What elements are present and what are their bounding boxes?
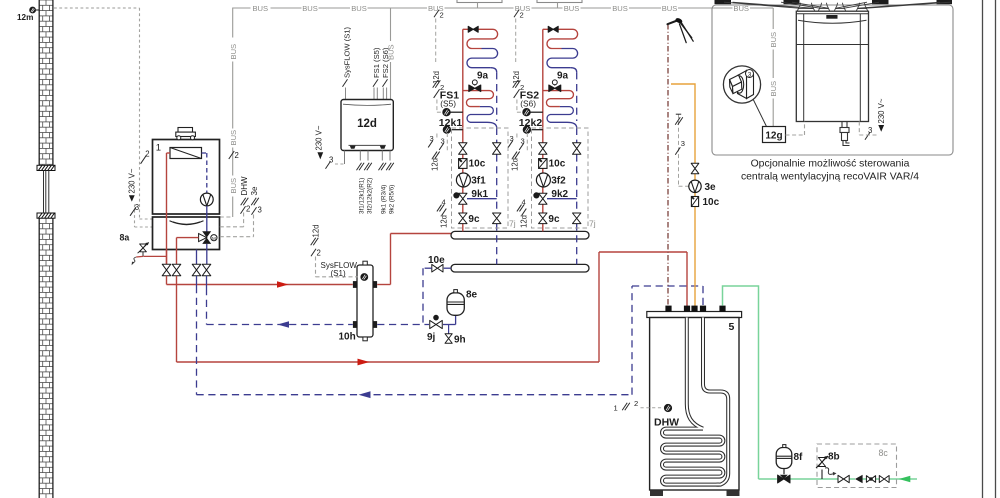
svg-text:8c: 8c [879,448,889,458]
svg-text:9c: 9c [468,214,480,225]
svg-text:7j: 7j [509,219,516,229]
svg-text:3f1: 3f1 [471,176,486,187]
svg-text:9k1 (R3/4): 9k1 (R3/4) [381,185,388,214]
svg-text:BUS: BUS [769,81,778,97]
svg-text:1: 1 [156,143,161,154]
svg-text:9j: 9j [427,332,436,343]
svg-text:8e: 8e [466,290,478,301]
svg-text:FS1 (S5): FS1 (S5) [372,47,381,78]
svg-text:3: 3 [258,206,262,215]
svg-text:1: 1 [614,404,618,413]
svg-text:2: 2 [235,151,239,160]
svg-text:(S5): (S5) [440,98,456,108]
svg-text:SysFLOW (S1): SysFLOW (S1) [343,26,352,78]
svg-text:230 V~: 230 V~ [877,98,886,123]
svg-text:2: 2 [317,249,321,258]
svg-text:10h: 10h [339,332,356,343]
svg-text:2: 2 [520,11,524,20]
svg-text:12d: 12d [357,118,377,130]
svg-text:FS2 (S6): FS2 (S6) [381,47,390,78]
svg-text:230 V~: 230 V~ [315,125,324,150]
svg-text:BUS: BUS [252,4,268,13]
svg-text:Opcjonalnie możliwość sterowan: Opcjonalnie możliwość sterowania [751,159,910,170]
svg-text:BUS: BUS [564,4,580,13]
svg-text:12d: 12d [440,215,449,228]
svg-text:BUS: BUS [662,4,678,13]
svg-text:BUS: BUS [229,178,238,194]
svg-text:3: 3 [681,139,685,148]
svg-text:12d: 12d [511,158,520,171]
svg-text:3e: 3e [250,186,259,195]
svg-text:BUS: BUS [612,4,628,13]
svg-text:9a: 9a [557,70,569,81]
svg-text:12m: 12m [17,13,33,22]
svg-text:3f1/12k1(R1): 3f1/12k1(R1) [359,178,366,214]
svg-text:2: 2 [440,11,444,20]
svg-text:DHW: DHW [654,417,679,429]
svg-text:3f2: 3f2 [551,176,566,187]
svg-text:BUS: BUS [302,4,318,13]
svg-text:2: 2 [440,83,444,92]
svg-text:9k2 (R5/6): 9k2 (R5/6) [389,185,396,214]
svg-text:12g: 12g [765,131,782,142]
svg-text:10c: 10c [703,197,720,208]
svg-text:12k2: 12k2 [519,117,543,129]
svg-text:2: 2 [634,399,638,408]
svg-text:centralą wentylacyjną recoVAIR: centralą wentylacyjną recoVAIR VAR/4 [741,172,919,183]
svg-text:230 V~: 230 V~ [128,168,137,193]
svg-text:8f: 8f [794,452,804,463]
svg-text:2: 2 [520,83,524,92]
svg-text:2: 2 [145,150,149,159]
svg-text:2: 2 [246,205,250,214]
svg-text:8b: 8b [828,452,840,463]
svg-text:12k1: 12k1 [439,117,463,129]
svg-text:3e: 3e [705,182,717,193]
svg-text:10c: 10c [549,159,566,170]
svg-text:9a: 9a [477,70,489,81]
svg-text:BUS: BUS [229,44,238,60]
svg-text:(S6): (S6) [520,98,536,108]
svg-text:9c: 9c [548,214,560,225]
svg-text:10e: 10e [428,255,445,266]
svg-text:8a: 8a [120,233,130,243]
svg-text:BUS: BUS [229,130,238,146]
svg-text:12d: 12d [431,158,440,171]
svg-text:10c: 10c [469,159,486,170]
svg-text:(S1): (S1) [331,269,346,278]
svg-text:3: 3 [748,71,752,78]
svg-text:9h: 9h [454,335,466,346]
svg-text:M: M [212,236,216,241]
svg-text:12d: 12d [520,215,529,228]
svg-text:3f2/12k2(R2): 3f2/12k2(R2) [366,178,373,214]
svg-text:5: 5 [729,321,735,333]
svg-text:DHW: DHW [240,176,249,196]
svg-text:BUS: BUS [351,4,367,13]
svg-text:12d: 12d [312,224,321,237]
svg-text:7j: 7j [589,219,596,229]
svg-text:BUS: BUS [769,32,778,48]
svg-text:3: 3 [135,203,139,212]
